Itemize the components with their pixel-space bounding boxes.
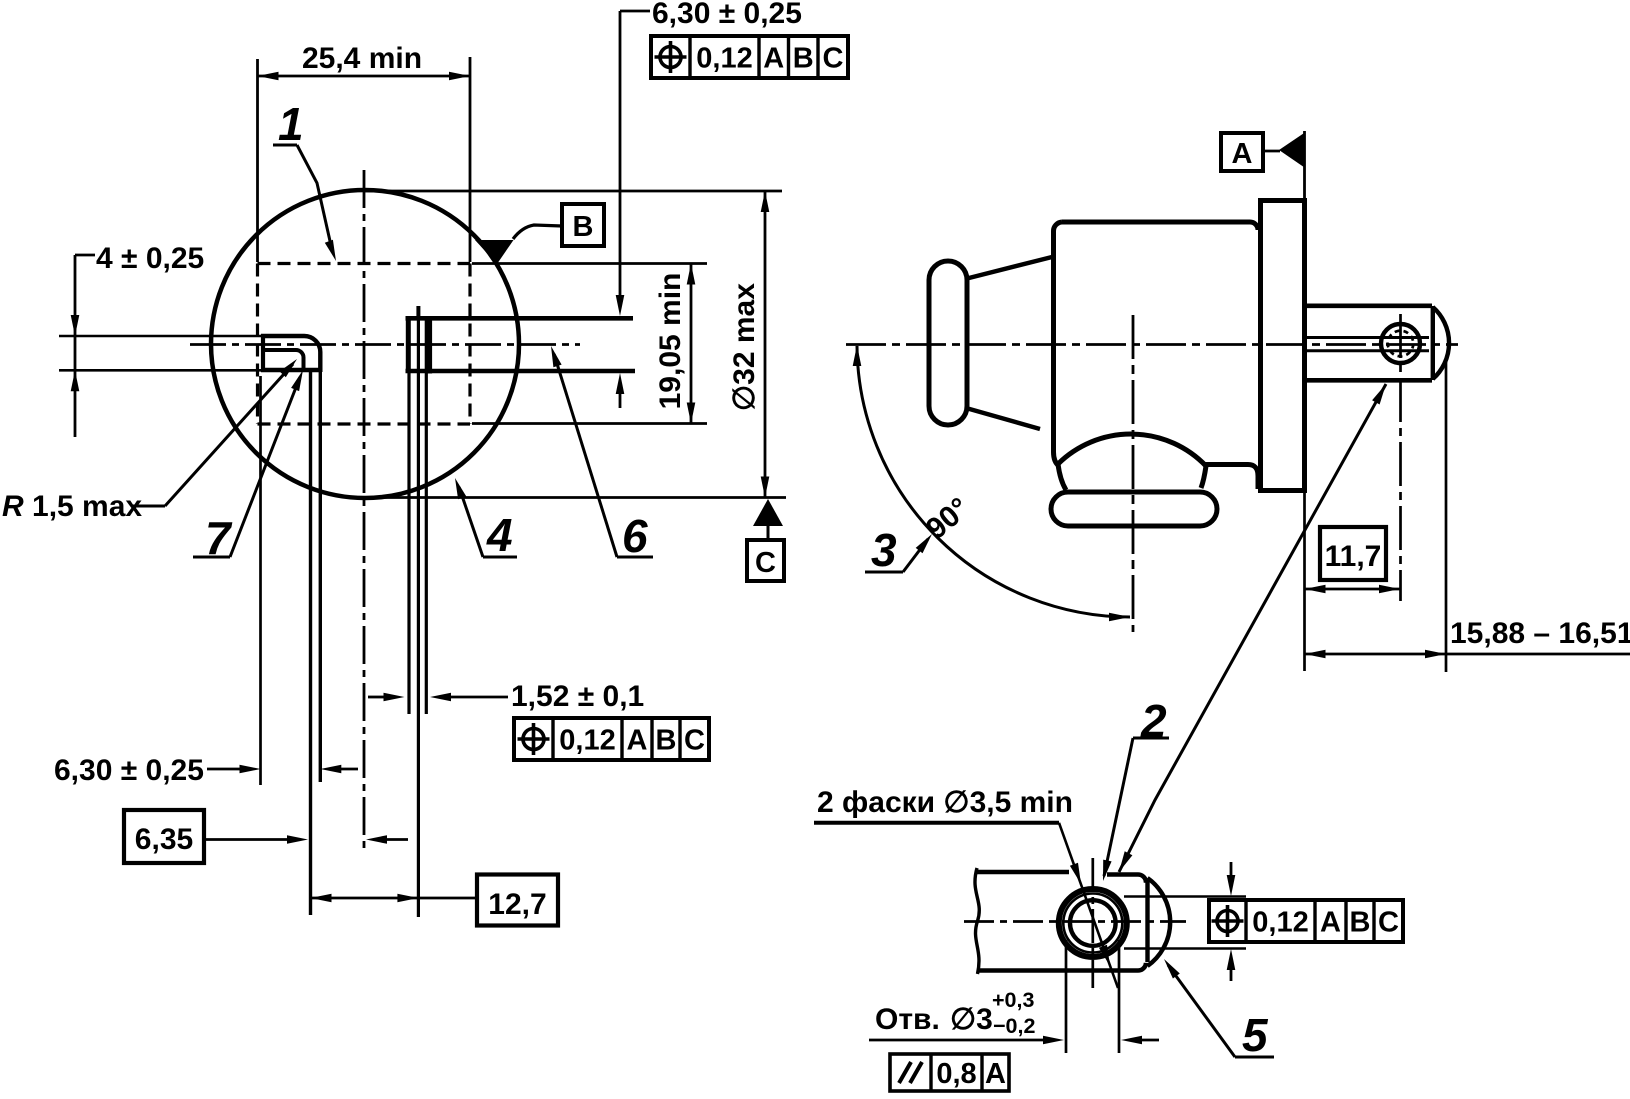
boxed dimension 11,7 xyxy=(1305,527,1401,593)
item label 5 with leader to chamfer arc xyxy=(1164,959,1274,1061)
boxed dimension 6,35 xyxy=(124,810,408,863)
glass dome of side view body xyxy=(1058,434,1206,490)
right lead pos.6: tab top bar xyxy=(406,316,634,321)
bent lead pos.7: inner edge with inner bend radius xyxy=(261,350,304,368)
left lead wire: right line going down xyxy=(319,372,322,782)
feature control frame top: position 0,12 A B C xyxy=(651,36,848,78)
svg-text:1,52 ± 0,1: 1,52 ± 0,1 xyxy=(511,680,644,713)
svg-text:A: A xyxy=(1232,138,1253,170)
feature control frame detail: position 0,12 A B C xyxy=(1209,900,1403,942)
extension line below flange right face xyxy=(1303,493,1306,671)
detail view hole: inner bore circle pos.2 xyxy=(1070,900,1116,946)
svg-text:1: 1 xyxy=(278,98,304,150)
svg-text:5: 5 xyxy=(1242,1009,1269,1061)
datum B flag with filled triangle and leader xyxy=(475,204,604,264)
svg-text:0,12: 0,12 xyxy=(1252,907,1308,939)
connector from dome to flange xyxy=(1205,465,1258,490)
dimension 6,30 +/- 0,25 bottom with extension line xyxy=(54,376,358,787)
side view body outline xyxy=(1054,222,1259,466)
extension line: dashed-square top edge extended right xyxy=(472,262,707,265)
chamfer callout 2 faski diameter 3,5 min with double-arrow leader xyxy=(814,786,1118,988)
90 degree angle arc with arrows xyxy=(853,345,1130,621)
detail view: stud bottom edge xyxy=(977,963,1146,971)
svg-text:19,05 min: 19,05 min xyxy=(654,273,687,410)
svg-text:∅32 max: ∅32 max xyxy=(728,283,761,411)
datum A flag with filled triangle and box xyxy=(1221,131,1305,198)
svg-text:25,4 min: 25,4 min xyxy=(302,42,422,75)
cross hole vertical centerline extended down xyxy=(1399,314,1402,601)
right lead pos.6: stub above tab xyxy=(416,306,420,317)
detail view hole: outer chamfer circle xyxy=(1059,889,1127,957)
dashed square: flange outline (pos. 1) xyxy=(258,264,471,425)
svg-text:6: 6 xyxy=(622,510,648,562)
slot tangent extension lines to position frame xyxy=(1124,897,1246,949)
svg-text:0,12: 0,12 xyxy=(559,725,615,757)
svg-text:6,35: 6,35 xyxy=(135,823,193,856)
svg-text:C: C xyxy=(1378,907,1399,939)
flexible lead upper diagonal line xyxy=(965,257,1052,279)
flexible lead loop (stadium) at left of side view xyxy=(929,261,967,425)
extension line: dashed-square bottom edge extended right xyxy=(472,422,707,425)
dimension 4 +/- 0,25 with outside arrows xyxy=(71,242,205,437)
detail view: stud end chamfer arc xyxy=(1148,878,1171,966)
svg-text:B: B xyxy=(793,43,814,75)
dimension 25,4 min with extension lines xyxy=(258,42,471,262)
dimension 1,52 +/- 0,1 with outside arrows xyxy=(368,680,644,713)
bent lead pos.7: left end cap xyxy=(261,334,265,372)
svg-text:C: C xyxy=(755,547,776,579)
svg-text:6,30 ± 0,25: 6,30 ± 0,25 xyxy=(54,754,204,787)
item label 6 with leader to right lead xyxy=(551,346,653,562)
bent lead pos.7: bottom edge of tab xyxy=(261,368,322,372)
position frame arrows (slot width) xyxy=(1227,862,1236,981)
threaded stud of side view xyxy=(1306,306,1449,381)
extension line: circle top tangent xyxy=(365,190,782,193)
cross hole on stud (side view): outer circle xyxy=(1381,324,1420,363)
detail view: break line at left xyxy=(975,868,979,974)
svg-text:4: 4 xyxy=(486,509,513,561)
base stadium (weld flange cup) of side view xyxy=(1051,492,1217,526)
svg-text:∅3: ∅3 xyxy=(950,1003,993,1036)
extension lines for dimension 4 +/- 0,25 (bent lead) xyxy=(59,336,261,370)
svg-text:C: C xyxy=(684,725,705,757)
svg-text:15,88 – 16,51: 15,88 – 16,51 xyxy=(1450,617,1630,650)
hole diameter 3 extension lines xyxy=(1066,940,1119,1053)
svg-text:Отв.: Отв. xyxy=(875,1003,940,1036)
item label 1 with leader to dashed square xyxy=(273,98,336,261)
right lead wire: right line xyxy=(425,320,428,714)
bent lead pos.7: top edge with outer bend radius xyxy=(261,336,320,372)
svg-text:0,8: 0,8 xyxy=(936,1058,976,1090)
svg-text:B: B xyxy=(573,211,594,243)
up arrow of vertical 6,30 dimension xyxy=(616,373,625,408)
flexible lead lower diagonal line xyxy=(966,408,1040,429)
datum C flag: filled triangle on bottom tangent and boxed letter xyxy=(747,499,784,581)
dimension 6,30 +/- 0,25 top leader with down arrow xyxy=(616,0,802,316)
svg-text:11,7: 11,7 xyxy=(1325,540,1382,573)
svg-text:+0,3: +0,3 xyxy=(992,988,1034,1012)
cross hole on stud: inner dashed circle xyxy=(1388,331,1414,357)
dimension 19,05 min (vertical, rotated text) xyxy=(654,264,695,424)
left lead wire: left line going down xyxy=(309,372,312,915)
label R 1,5 max with leader to bend radius xyxy=(2,359,297,523)
long leader connecting stud hole to detail view xyxy=(1119,384,1386,872)
svg-text:A: A xyxy=(763,43,784,75)
right lead pos.6: tab left cap xyxy=(406,316,411,373)
extension line: circle bottom tangent xyxy=(365,496,786,499)
svg-text:6,30 ± 0,25: 6,30 ± 0,25 xyxy=(652,0,802,30)
right lead pos.6: thick inner vertical xyxy=(427,316,432,374)
side view horizontal axis centerline xyxy=(846,343,1458,346)
svg-text:3: 3 xyxy=(871,524,897,576)
dimension diameter 32 max (vertical, rotated text) xyxy=(728,191,769,498)
parallelism frame // 0,8 A xyxy=(890,1054,1009,1091)
feature control frame middle: position 0,12 A B C xyxy=(514,718,709,760)
front view vertical centerline xyxy=(363,170,366,852)
hole callout text Otv. diameter 3 +0,3/-0,2 xyxy=(875,988,1035,1038)
svg-text:A: A xyxy=(1320,907,1341,939)
item label 7 with leader xyxy=(193,370,303,564)
hole diameter 3 dimension line with outside arrows xyxy=(869,1036,1159,1045)
svg-text:C: C xyxy=(823,43,844,75)
svg-text:−0,2: −0,2 xyxy=(993,1014,1035,1038)
front view: package body circle (pos. 4) xyxy=(211,190,519,498)
right lead wire: left line xyxy=(407,373,410,714)
svg-text:B: B xyxy=(1350,907,1371,939)
svg-text:A: A xyxy=(627,725,648,757)
boxed dimension 12,7 xyxy=(311,875,559,926)
mounting flange of side view xyxy=(1258,198,1307,493)
item label 4 with leader to circle xyxy=(455,478,517,561)
right lead wire: middle line xyxy=(417,320,420,917)
detail view: stud top edge (with gap at chamfer) xyxy=(977,872,1146,883)
detail view horizontal centerline xyxy=(964,920,1186,923)
item label 3 with leader to arc xyxy=(865,524,932,576)
svg-text:4 ± 0,25: 4 ± 0,25 xyxy=(96,242,204,275)
lead slot lines inside stud xyxy=(1306,338,1429,351)
svg-text:0,12: 0,12 xyxy=(696,43,752,75)
svg-text:12,7: 12,7 xyxy=(488,888,546,921)
dimension 15,88 - 16,51 xyxy=(1305,360,1630,672)
svg-text:B: B xyxy=(656,725,677,757)
item label 2 with leader to hole bore xyxy=(1103,695,1169,881)
side view vertical centerline xyxy=(1132,315,1135,632)
detail view: stud end face xyxy=(1145,880,1149,962)
detail view hole: thin chamfer edge circle xyxy=(1063,894,1122,953)
front view horizontal centerline xyxy=(190,343,580,346)
svg-text:A: A xyxy=(985,1058,1006,1090)
right lead pos.6: tab bottom bar xyxy=(406,369,636,374)
svg-text:2 фаски ∅3,5 min: 2 фаски ∅3,5 min xyxy=(817,786,1073,819)
detail view vertical centerline xyxy=(1091,858,1094,988)
svg-text:R 1,5 max: R 1,5 max xyxy=(2,490,142,523)
